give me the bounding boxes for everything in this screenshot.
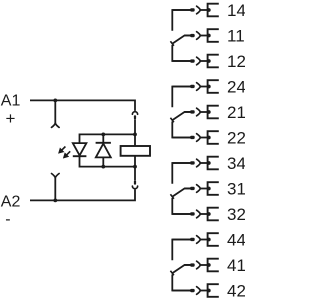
wire coil branch: [134, 134, 136, 166]
switch lever 11: [172, 35, 190, 43]
svg-text:11: 11: [227, 27, 245, 46]
terminal bracket 14: [208, 4, 219, 17]
pivot tick 41: [170, 271, 174, 276]
junction dot A1 stub: [53, 99, 57, 103]
socket fork 21: [197, 108, 201, 116]
wire blade to coil node: [134, 119, 136, 134]
terminal bracket 32: [208, 208, 219, 221]
wire coil node to blade: [134, 167, 136, 181]
svg-text:44: 44: [227, 231, 245, 250]
LED D1 cathode bar: [73, 155, 87, 157]
socket fork 42: [197, 287, 201, 295]
svg-text:-: -: [5, 211, 10, 228]
svg-text:32: 32: [227, 205, 245, 224]
svg-text:A1: A1: [1, 92, 21, 109]
switch lever 21: [172, 112, 190, 120]
junction dot terminal 12: [207, 59, 211, 63]
plug blade bottom: [134, 180, 136, 184]
wire fork-to-terminal 42: [200, 290, 207, 292]
junction dot diode bottom: [101, 165, 105, 169]
junction dot terminal 11: [207, 34, 211, 38]
socket fork 31: [197, 185, 201, 193]
wire to contact 32: [172, 213, 192, 215]
contact blade 41: [190, 263, 195, 266]
terminal bracket 44: [208, 233, 219, 246]
svg-text:42: 42: [227, 282, 245, 300]
wire to contact 41: [185, 264, 192, 266]
wire fork-to-terminal 14: [200, 9, 207, 11]
wire diode branch bottom: [102, 157, 104, 166]
svg-text:41: 41: [227, 256, 245, 275]
junction dot terminal 34: [207, 161, 211, 165]
contact blade 22: [190, 136, 195, 139]
socket fork 11: [197, 32, 201, 40]
terminal bracket 31: [208, 182, 219, 195]
wire to contact 21: [185, 111, 192, 113]
wire to contact 44: [172, 239, 192, 241]
socket fork 41: [197, 261, 201, 269]
diode D2 cathode bar: [96, 142, 111, 144]
terminal bracket 12: [208, 55, 219, 68]
wire A2 rail: [30, 189, 135, 200]
diode D2 triangle: [96, 144, 111, 158]
switch lever 31: [172, 188, 190, 196]
wire network bottom rail: [80, 156, 136, 167]
junction dot terminal 22: [207, 136, 211, 140]
terminal bracket 34: [208, 157, 219, 170]
wire fork-to-terminal 34: [200, 162, 207, 164]
NO fixed contact stub 44: [172, 240, 190, 261]
junction dot terminal 14: [207, 8, 211, 12]
socket arc bottom: [132, 186, 137, 189]
wire to contact 34: [172, 162, 192, 164]
junction dot terminal 24: [207, 85, 211, 89]
wire to contact 22: [172, 137, 192, 139]
wire fork-to-terminal 11: [200, 35, 207, 37]
junction dot terminal 31: [207, 187, 211, 191]
contact group 21 common: [170, 87, 190, 138]
contact blade 32: [190, 212, 195, 215]
svg-text:22: 22: [227, 129, 245, 148]
wire A1 plug stub: [54, 100, 56, 123]
pivot tick 31: [170, 194, 174, 199]
socket fork 14: [197, 6, 201, 14]
terminal bracket 21: [208, 106, 219, 119]
junction dot terminal 21: [207, 110, 211, 114]
LED D1 triangle: [73, 143, 87, 155]
plug fork A2: [52, 174, 60, 178]
svg-text:34: 34: [227, 154, 245, 173]
junction dot diode top: [101, 133, 105, 137]
wire fork-to-terminal 21: [200, 111, 207, 113]
wire to contact 24: [172, 86, 192, 88]
wire fork-to-terminal 12: [200, 60, 207, 62]
contact blade 42: [190, 289, 195, 292]
plug blade top: [134, 115, 136, 119]
socket fork 22: [197, 134, 201, 142]
wire to contact 42: [172, 290, 192, 292]
junction dot terminal 44: [207, 238, 211, 242]
wire fork-to-terminal 24: [200, 86, 207, 88]
wire to contact 11: [185, 35, 192, 37]
svg-text:+: +: [6, 109, 16, 128]
wire A2 plug stub: [54, 178, 56, 201]
socket fork 24: [197, 83, 201, 91]
junction dot terminal 41: [207, 263, 211, 267]
pivot tick 21: [170, 118, 174, 123]
wire to contact 14: [172, 9, 192, 11]
terminal bracket 24: [208, 80, 219, 93]
contact blade 34: [190, 161, 195, 164]
NO fixed contact stub 34: [172, 163, 190, 184]
junction dot A2 stub: [53, 199, 57, 203]
wire fork-to-terminal 44: [200, 239, 207, 241]
contact group 31 common: [170, 163, 190, 214]
wire fork-to-terminal 32: [200, 213, 207, 215]
contact blade 14: [190, 8, 195, 11]
svg-text:21: 21: [227, 103, 245, 122]
junction dot terminal 32: [207, 212, 211, 216]
svg-text:A2: A2: [1, 193, 21, 210]
switch lever 41: [172, 265, 190, 273]
wire fork-to-terminal 41: [200, 264, 207, 266]
wire diode branch top: [102, 134, 104, 143]
relay coil K1: [121, 146, 150, 156]
wire to contact 31: [185, 188, 192, 190]
svg-text:14: 14: [227, 1, 245, 20]
contact blade 31: [190, 187, 195, 190]
wire to contact 12: [172, 60, 192, 62]
junction dot terminal 42: [207, 289, 211, 293]
terminal bracket 11: [208, 29, 219, 42]
plug fork A1: [52, 123, 60, 127]
terminal bracket 41: [208, 259, 219, 272]
NC contact wire 22: [172, 121, 190, 137]
NC contact wire 32: [172, 198, 190, 214]
NO fixed contact stub 24: [172, 87, 190, 108]
wire A1 rail: [30, 100, 135, 111]
contact blade 24: [190, 85, 195, 88]
contact blade 44: [190, 238, 195, 241]
terminal bracket 42: [208, 284, 219, 297]
terminal bracket 22: [208, 131, 219, 144]
NC contact wire 42: [172, 274, 190, 290]
socket fork 12: [197, 57, 201, 65]
contact group 41 common: [170, 240, 190, 291]
NC contact wire 12: [172, 45, 190, 61]
contact blade 21: [190, 110, 195, 113]
svg-text:31: 31: [227, 180, 245, 199]
NO fixed contact stub 14: [172, 10, 190, 31]
junction dot coil top: [133, 133, 137, 137]
socket arc top: [132, 112, 137, 115]
junction dot coil bottom: [133, 165, 137, 169]
contact blade 12: [190, 59, 195, 62]
svg-text:12: 12: [227, 52, 245, 71]
wire network top rail: [80, 134, 136, 143]
socket fork 34: [197, 159, 201, 167]
wire fork-to-terminal 22: [200, 137, 207, 139]
pivot tick 11: [170, 41, 174, 46]
svg-text:24: 24: [227, 78, 245, 97]
socket fork 44: [197, 236, 201, 244]
socket fork 32: [197, 210, 201, 218]
contact blade 11: [190, 34, 195, 37]
wire fork-to-terminal 31: [200, 188, 207, 190]
contact group 11 common: [170, 10, 190, 61]
LED emission arrow 2: [67, 151, 71, 155]
LED emission arrow 1: [62, 147, 66, 151]
